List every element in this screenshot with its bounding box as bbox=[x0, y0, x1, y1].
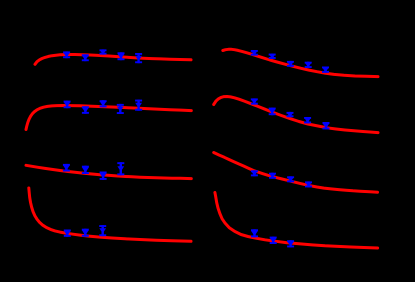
data point C1-2 with error bar bbox=[82, 54, 89, 61]
data point C7-4 with error bar bbox=[305, 181, 312, 187]
data point C1-1 with error bar bbox=[63, 51, 70, 58]
red fit curve 4 (bottom-left) bbox=[29, 188, 191, 241]
data point C2-1 with error bar bbox=[64, 101, 71, 109]
data point C7-1 with error bar bbox=[251, 170, 258, 176]
data point C8-3 with error bar bbox=[287, 240, 294, 247]
data point C5-2 with error bar bbox=[269, 54, 276, 59]
data point C6-5 with error bar bbox=[323, 122, 330, 129]
data point C3-2 with error bar bbox=[82, 166, 89, 174]
data point C3-1 with error bar bbox=[63, 164, 70, 172]
red fit curve 2 (left, second) bbox=[26, 106, 191, 130]
data point C4-2 with error bar bbox=[82, 229, 89, 237]
data point C8-1 with error bar bbox=[251, 229, 258, 237]
red fit curve 3 (left, third) bbox=[26, 165, 191, 178]
data point C2-4 with error bar bbox=[117, 104, 124, 114]
data point C3-3 with error bar bbox=[100, 172, 107, 180]
red fit curve 6 (right, second) bbox=[214, 97, 378, 133]
data point C5-3 with error bar bbox=[287, 61, 294, 67]
data point C8-2 with error bar bbox=[270, 237, 277, 244]
data point C2-5 with error bar bbox=[135, 100, 142, 111]
data point C1-4 with error bar bbox=[118, 52, 125, 60]
data point C7-2 with error bar bbox=[269, 173, 276, 179]
red fit curve 8 (bottom-right) bbox=[215, 193, 378, 249]
data point C6-1 with error bar bbox=[251, 98, 258, 104]
data point C1-5 with error bar bbox=[135, 53, 142, 63]
data point C6-4 with error bar bbox=[304, 117, 311, 123]
data point C6-3 with error bar bbox=[287, 112, 294, 118]
data point C1-3 with error bar bbox=[100, 49, 107, 54]
data point C7-3 with error bar bbox=[287, 176, 294, 182]
red fit curve 5 (top-right) bbox=[223, 49, 378, 76]
red fit curve 1 (top-left) bbox=[35, 55, 191, 65]
data point C4-3 with error bar bbox=[99, 225, 106, 236]
data point C4-1 with error bar bbox=[64, 230, 71, 237]
data point C3-4 with error bar bbox=[117, 162, 124, 175]
data point C2-3 with error bar bbox=[100, 100, 107, 107]
data point C2-2 with error bar bbox=[82, 106, 89, 114]
data point C5-4 with error bar bbox=[305, 62, 312, 68]
data point C6-2 with error bar bbox=[269, 108, 276, 116]
data point C5-1 with error bar bbox=[251, 50, 258, 56]
red fit curve 7 (right, third) bbox=[214, 153, 378, 193]
data point C5-5 with error bar bbox=[322, 67, 329, 73]
